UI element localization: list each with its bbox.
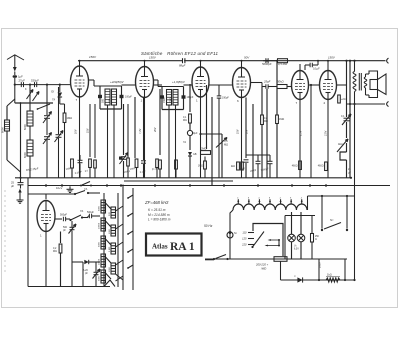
svg-text:15V: 15V [87, 128, 90, 133]
connector hook right mid [387, 101, 389, 106]
wire screen rail 1 [122, 84, 136, 86]
junction right bus [350, 177, 352, 179]
svg-text:Ω: Ω [315, 239, 317, 241]
svg-text:500: 500 [102, 98, 105, 103]
svg-text:100pF: 100pF [125, 96, 132, 99]
input coil L1 6000 [27, 111, 33, 126]
svg-text:190pF: 190pF [222, 97, 229, 100]
band switch coil assembly [103, 193, 105, 287]
svg-text:K = 25-51 m: K = 25-51 m [148, 208, 166, 212]
svg-text:4: 4 [258, 198, 259, 200]
svg-text:1000: 1000 [109, 228, 111, 234]
IF2 tuning capacitor right [182, 95, 186, 98]
wire column 20 [20, 103, 22, 178]
svg-text:500: 500 [109, 98, 112, 103]
wire mains v347 [346, 196, 348, 229]
svg-text:8: 8 [290, 198, 291, 200]
bus mid segment [124, 180, 233, 182]
svg-text:5 MΩ: 5 MΩ [109, 246, 111, 252]
IF1 primary coil [105, 89, 110, 105]
wire V5 cathode [299, 100, 301, 179]
svg-text:6000: 6000 [99, 241, 101, 247]
svg-text:25pF: 25pF [263, 80, 271, 84]
wire V6 cathode [327, 100, 329, 179]
resistor 2k cathode [241, 162, 244, 170]
svg-text:150V: 150V [89, 55, 97, 59]
wire v345 down [344, 259, 346, 280]
output transformer secondary winding [364, 77, 367, 88]
IF2 primary coil [167, 90, 172, 106]
filled trimmer marker [119, 157, 123, 160]
svg-text:0,5 MΩ: 0,5 MΩ [278, 62, 288, 66]
svg-text:6000: 6000 [23, 152, 27, 158]
svg-text:μF: μF [11, 184, 14, 188]
svg-text:1MΩ: 1MΩ [279, 118, 284, 121]
tube V7 EF11 [37, 201, 55, 232]
svg-text:6000: 6000 [1, 127, 5, 133]
svg-text:TA: TA [52, 98, 55, 102]
diode GB marker [184, 150, 186, 155]
svg-text:1000: 1000 [109, 266, 111, 272]
wire antenna input [15, 84, 71, 86]
transformer core [358, 73, 360, 91]
svg-text:6,3V: 6,3V [294, 249, 299, 251]
earth at bus [69, 186, 71, 189]
resistor 2M ohm [201, 151, 211, 155]
svg-text:2,5V: 2,5V [300, 131, 303, 137]
resistor 460 ohm right [325, 158, 327, 160]
diode Gl [59, 85, 61, 92]
capacitor 88uF in rail [183, 58, 185, 63]
wire V7 top [45, 194, 47, 199]
svg-text:TA: TA [80, 209, 83, 213]
svg-text:10000: 10000 [99, 258, 101, 265]
output transformer primary winding [353, 72, 356, 92]
capacitor cluster detector [256, 160, 261, 162]
svg-text:88μF: 88μF [179, 64, 186, 68]
antenna [7, 55, 24, 60]
wire mains input right [307, 196, 309, 210]
bus tick marks [45, 184, 47, 187]
capacitor 500uF osc2 [88, 214, 90, 219]
voltage selector lever [251, 246, 253, 248]
capacitor 25pF [265, 84, 267, 89]
capacitor cathode V1 [78, 159, 83, 161]
switch on heater bus [80, 185, 82, 187]
wire speaker return [347, 103, 385, 105]
wire v 160 down [159, 89, 161, 155]
wire v 267 down [266, 89, 268, 178]
capacitor 0.1uF V5 [305, 64, 310, 66]
rectifier diode [297, 277, 302, 282]
voltage selector frame [253, 224, 283, 257]
svg-text:6000: 6000 [23, 124, 27, 130]
capacitor 5000pF top [263, 60, 266, 62]
svg-text:150V: 150V [149, 56, 157, 60]
svg-text:10V: 10V [246, 129, 249, 134]
wire v 253 down [252, 104, 254, 178]
svg-text:GB: GB [193, 153, 197, 156]
svg-text:N≈: N≈ [330, 218, 334, 222]
wire mains top [308, 195, 355, 197]
svg-text:200-220 +: 200-220 + [255, 263, 269, 267]
svg-text:50 Hz: 50 Hz [204, 224, 213, 228]
resistor 200-220 [274, 257, 287, 262]
svg-text:Gl: Gl [51, 90, 54, 94]
wire v62 down [61, 221, 63, 231]
fuse Si [227, 232, 233, 238]
trimmer at 123 [123, 104, 125, 155]
svg-text:2kΩ: 2kΩ [231, 166, 235, 168]
trimmer arrows antenna circuit [27, 90, 34, 100]
resistor 0.2M osc [60, 232, 62, 244]
resistor 0.5M ohm top [278, 59, 288, 63]
wire AVC line [201, 133, 223, 135]
wire screen rail 2 [154, 84, 163, 86]
resistor 1M ohm [204, 157, 206, 162]
svg-text:15V: 15V [237, 129, 240, 134]
svg-text:125: 125 [242, 237, 247, 241]
wire oscillator row [15, 102, 53, 104]
coil block bottom arrows [104, 280, 115, 287]
wire mains v322 [321, 196, 323, 229]
svg-text:+2Ω: +2Ω [341, 98, 346, 101]
svg-text:500μF: 500μF [87, 211, 94, 214]
svg-text:50μF: 50μF [192, 132, 198, 135]
filament winding frame [285, 215, 315, 217]
svg-text:4: 4 [280, 198, 281, 200]
tube V2 EF12 [136, 67, 154, 98]
wire filament winding taps [291, 212, 293, 234]
svg-text:MΩ: MΩ [53, 250, 57, 253]
capacitor 530uF [34, 82, 36, 87]
svg-text:0,5: 0,5 [224, 139, 228, 143]
svg-text:2MΩ: 2MΩ [201, 147, 207, 151]
wire v 350 to bus [349, 61, 351, 178]
dotted chassis line left [4, 190, 6, 272]
svg-text:+1,8(80)V: +1,8(80)V [172, 80, 186, 84]
trimmer capacitor C var 2 [56, 134, 62, 136]
resistor 460 ohm V5 cathode [299, 161, 302, 170]
svg-text:460Ω: 460Ω [292, 165, 298, 168]
resistor 1M grid [64, 104, 66, 113]
trimmer 6-20pF [94, 271, 99, 273]
resistor 250 ohm lamp [311, 234, 314, 243]
svg-text:5000pF: 5000pF [262, 62, 272, 66]
mains switch [321, 229, 323, 231]
svg-text:8: 8 [248, 198, 249, 200]
svg-text:10V: 10V [75, 129, 78, 134]
resistor 0.5M at 90 [89, 104, 91, 157]
trimmer capacitor C var 1a [44, 115, 50, 117]
voltage selector taps [248, 232, 254, 234]
capacitor 190pF [217, 95, 222, 97]
trimmer 500pF below [70, 226, 75, 228]
svg-text:4kΩ: 4kΩ [338, 143, 343, 146]
wire speaker rail [337, 84, 347, 86]
feedthrough capacitor 1uF [13, 75, 17, 78]
wire v83 down [82, 262, 84, 287]
resistor cathode V1 cluster [71, 159, 74, 168]
svg-text:110: 110 [242, 231, 247, 235]
tube V4 EF11 [233, 68, 251, 98]
svg-text:7A: 7A [183, 141, 186, 144]
wire V3 to V4 coupling [209, 84, 233, 86]
wire v 135 down with resistor [134, 97, 136, 158]
svg-text:220: 220 [241, 243, 247, 247]
wire antenna down-lead [14, 85, 16, 103]
svg-text:M = 214-580 m: M = 214-580 m [148, 213, 170, 217]
svg-text:4: 4 [237, 198, 238, 200]
IF1 secondary coil [112, 89, 117, 105]
svg-text:×: × [294, 274, 296, 278]
input coil L2 6000 [27, 140, 33, 156]
output grid resistor V6 [337, 93, 339, 100]
speaker [369, 71, 378, 74]
tube V5 EF11 [292, 71, 309, 100]
svg-text:1kΩ: 1kΩ [327, 273, 332, 277]
wire V2 cathode [144, 98, 146, 179]
svg-text:460Ω: 460Ω [318, 165, 324, 168]
resistor 50k ohm [277, 85, 287, 89]
capacitor 500pF osc [62, 217, 64, 222]
mains transformer winding [233, 204, 307, 210]
resistor at 128 [127, 104, 129, 158]
trimmer capacitor C var 1b [44, 136, 50, 138]
antenna coil 6000 [5, 120, 10, 131]
switch TA [69, 219, 71, 221]
svg-text:180V: 180V [319, 262, 322, 268]
IF transformer 2 [154, 79, 159, 81]
wire V3 grid leak [206, 85, 208, 149]
svg-text:7,4V: 7,4V [139, 129, 142, 134]
svg-text:+220(80)V: +220(80)V [110, 80, 125, 84]
wire V7 grid right [55, 218, 62, 220]
resistor 0.2M anode V4 [261, 87, 263, 116]
resistor 0.1M at 190 [189, 84, 191, 112]
ground symbol top left [19, 191, 21, 197]
switch contacts block right [127, 197, 129, 199]
svg-text:RA 1: RA 1 [170, 241, 195, 253]
wire v28 down [27, 178, 29, 287]
svg-text:4: 4 [301, 198, 302, 200]
svg-text:8: 8 [269, 198, 270, 200]
wire v212 down [211, 97, 213, 186]
selector arrow contacts [269, 239, 279, 241]
capacitor 0.1 right top [346, 61, 348, 117]
wire V4 plate to detector [251, 82, 263, 84]
power bus [205, 258, 347, 260]
IF2 leads down [168, 105, 170, 178]
tube V6 EF11 output [320, 71, 337, 100]
wire V3 cathode [200, 97, 202, 178]
svg-text:7000: 7000 [170, 97, 173, 103]
wire rectifier horizontal [281, 279, 355, 281]
svg-text:530μF: 530μF [31, 79, 39, 83]
pilot lamp 1 [288, 234, 296, 242]
svg-text:Atlas: Atlas [152, 243, 168, 251]
oscillator bus bottom [28, 286, 110, 288]
IF2 secondary coil [173, 90, 178, 106]
svg-text:10000: 10000 [99, 222, 101, 229]
IF transformer 1 [88, 79, 94, 81]
potentiometer 0.5M volume [216, 138, 227, 148]
svg-text:27μF: 27μF [19, 79, 26, 83]
svg-text:1MΩ: 1MΩ [198, 165, 203, 168]
svg-text:1MΩ: 1MΩ [67, 116, 73, 120]
svg-text:0,1: 0,1 [341, 115, 345, 118]
svg-text:0,1μF: 0,1μF [313, 67, 320, 71]
bold stub left [205, 259, 214, 261]
connector hook top right [387, 58, 389, 63]
IF1 tuning capacitor right [120, 95, 124, 98]
svg-text:MΩ: MΩ [224, 143, 228, 147]
tone pot 4k [337, 139, 348, 152]
electrolytic 50uF [187, 130, 192, 135]
IF2 tuning capacitor left [160, 95, 164, 98]
wire V4 cathode [241, 98, 243, 179]
pilot lamp 2 [297, 234, 305, 242]
resistor 1M [276, 61, 278, 115]
junction 355 280 [353, 279, 355, 281]
svg-text:7000: 7000 [163, 97, 166, 103]
wire V5 V6 coupling [309, 84, 320, 86]
tube V1 EF12 [71, 66, 89, 97]
wire v319 down [318, 259, 320, 280]
IF1 tuning capacitor left [98, 95, 102, 98]
diode bottom left [72, 261, 83, 263]
wire transformer left down [230, 210, 233, 259]
wire top RC decoupling V4 [242, 60, 263, 62]
svg-text:6000: 6000 [99, 205, 101, 211]
capacitor 27uF [20, 82, 22, 87]
rail junction dots [79, 60, 81, 62]
resistor at 157 [156, 159, 159, 168]
wire V1 cathode [79, 97, 81, 178]
mains on-off switch [213, 258, 215, 260]
svg-text:ZF=468 kHz: ZF=468 kHz [144, 200, 169, 205]
cathode resistors V4 cluster [237, 158, 239, 160]
nameplate box Atlas RA 1 [146, 234, 202, 256]
svg-text:/WΩ: /WΩ [260, 267, 266, 271]
resistor 1k zigzag [326, 278, 340, 282]
wire rectifier down [280, 261, 282, 280]
svg-text:L = 800-1800 m: L = 800-1800 m [148, 218, 171, 222]
svg-text:20V: 20V [154, 127, 157, 133]
bus chassis A [15, 177, 351, 179]
wire right column 355 [354, 104, 356, 280]
switch on osc row [38, 104, 50, 109]
resistor at 95 [94, 104, 96, 158]
svg-text:500pF: 500pF [60, 214, 68, 217]
wire top HT rail [78, 60, 385, 62]
wire v 311 down [310, 85, 312, 178]
wire V7 cathode down [45, 232, 47, 287]
svg-text:MΩ: MΩ [183, 119, 187, 122]
svg-text:150V: 150V [328, 56, 336, 60]
capacitor 25uF bottom left [18, 182, 24, 184]
tube V3 EF12 [192, 67, 209, 97]
wire v 246 down [245, 98, 247, 159]
svg-text:50kΩ: 50kΩ [277, 80, 285, 84]
svg-text:2,5V: 2,5V [325, 131, 328, 137]
IF1 leads down [107, 105, 109, 178]
transformer taps [237, 199, 239, 204]
svg-text:6000: 6000 [99, 275, 101, 281]
wire v 176 down [175, 150, 177, 158]
capacitor 0.1 at 143 [141, 160, 146, 162]
switch W1 top [74, 193, 76, 195]
svg-text:Si: Si [234, 231, 237, 235]
bus chassis B [28, 185, 390, 187]
